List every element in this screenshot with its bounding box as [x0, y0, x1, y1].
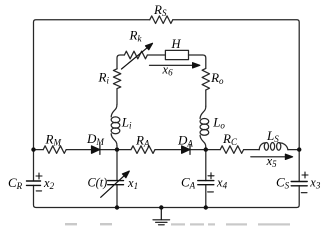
svg-text:RS: RS [153, 2, 167, 18]
svg-text:C(t): C(t) [88, 176, 108, 190]
junction node CA bottom [204, 205, 208, 209]
wire branch C(t) [116, 150, 118, 208]
resistor RM [43, 146, 66, 154]
resistor Rk [124, 51, 147, 59]
resistor Ri [113, 69, 120, 89]
svg-text:DA: DA [177, 133, 193, 149]
resistor RA [131, 146, 155, 154]
svg-text:H: H [171, 37, 182, 51]
svg-text:Rk: Rk [129, 28, 143, 44]
svg-text:RA: RA [135, 133, 150, 149]
diode DM [92, 145, 100, 155]
svg-text:x2: x2 [43, 176, 55, 191]
inductor LS [259, 143, 265, 150]
svg-text:x3: x3 [309, 176, 321, 191]
svg-text:LS: LS [266, 128, 279, 144]
box H [165, 50, 188, 59]
arrow x5 [251, 154, 293, 159]
resistor RC [220, 146, 243, 154]
capacitor CR plates [27, 181, 41, 185]
svg-text:x6: x6 [162, 62, 174, 77]
junction node ground [159, 205, 163, 209]
svg-text:Lo: Lo [212, 115, 225, 131]
junction node Lo/CA [204, 147, 208, 151]
svg-text:RM: RM [45, 132, 62, 148]
diode DA [182, 145, 190, 155]
junction node Li/C(t) [115, 147, 119, 151]
inductor Lo [200, 106, 206, 118]
wire main horizontal [34, 149, 300, 151]
minus sign CA [208, 191, 214, 193]
caption remnant [65, 223, 290, 226]
inductor Li [111, 105, 117, 117]
junction node C(t) bottom [115, 205, 119, 209]
wire outer loop left/top segment [34, 20, 150, 181]
svg-text:x1: x1 [127, 176, 138, 191]
arrow x6 [150, 63, 200, 68]
wire branch CA [205, 150, 207, 208]
svg-text:CA: CA [181, 175, 196, 191]
wire inner branch left vertical [117, 55, 206, 150]
wire outer loop bottom segment [34, 185, 300, 207]
plus sign CA [208, 173, 214, 179]
plus sign CS [302, 172, 308, 178]
capacitor C(t) plates [108, 181, 124, 185]
junction node left main [31, 147, 35, 151]
resistor Ro [202, 68, 209, 90]
minus sign CR [36, 190, 41, 192]
junction node right main [297, 147, 301, 151]
plus sign CR [36, 173, 42, 179]
wire outer loop right/top segment [173, 20, 299, 182]
capacitor CS plates [291, 182, 307, 186]
svg-text:x4: x4 [216, 176, 228, 191]
capacitor CA plates [198, 181, 214, 185]
svg-text:Li: Li [121, 114, 132, 130]
svg-text:Ri: Ri [98, 70, 110, 86]
svg-text:CR: CR [8, 175, 23, 191]
svg-text:CS: CS [276, 175, 290, 191]
svg-text:Ro: Ro [210, 70, 224, 86]
arrow variable Rk [122, 43, 153, 69]
minus sign CS [301, 192, 307, 194]
svg-text:RC: RC [222, 131, 238, 147]
svg-text:DM: DM [86, 131, 104, 147]
ground [153, 208, 170, 225]
arrow variable C(t) [101, 171, 130, 197]
resistor RS [150, 16, 173, 24]
